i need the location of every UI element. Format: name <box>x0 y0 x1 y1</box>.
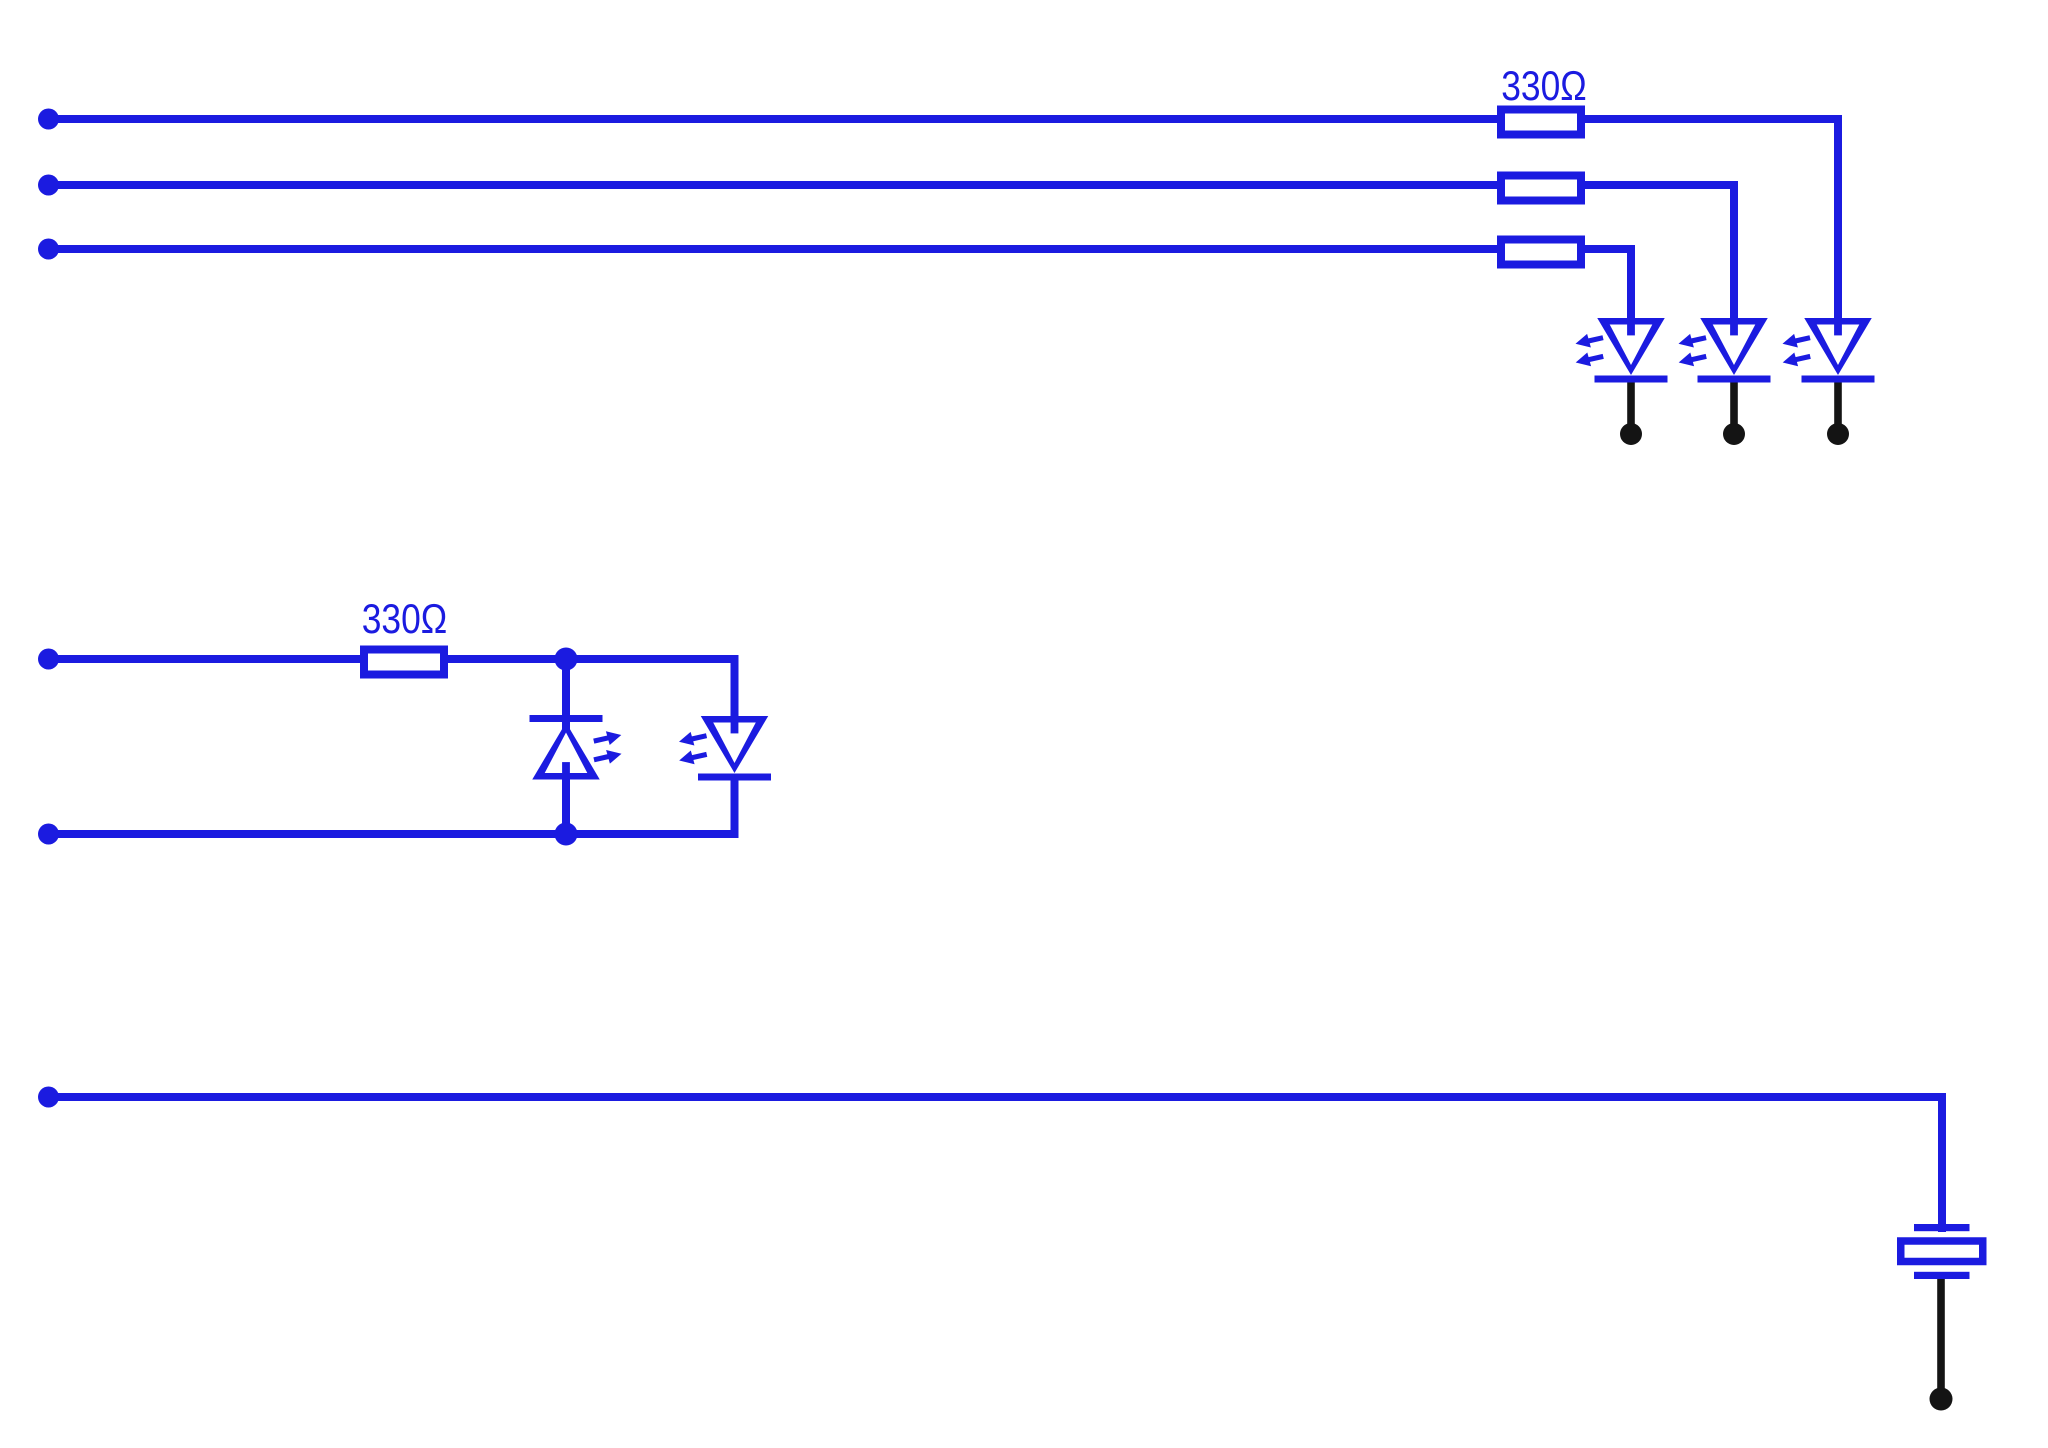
node terminal row2 <box>38 175 59 196</box>
pin cathode D3 <box>1827 381 1849 445</box>
wire emitter branch <box>562 659 570 834</box>
piezo buzzer BZ1 <box>1901 1224 1983 1279</box>
wire buzzer net <box>48 1097 1942 1232</box>
photodiode D5 receiver <box>677 716 771 781</box>
resistor R4 330ohm <box>364 650 444 675</box>
pin cathode D2 <box>1723 381 1745 445</box>
LED D3 <box>1781 318 1875 383</box>
pin buzzer negative <box>1930 1277 1953 1411</box>
svg-text:330Ω: 330Ω <box>362 595 448 642</box>
node terminal row3 <box>38 239 59 260</box>
LED D4 infrared emitter <box>530 715 624 780</box>
node terminal middle bottom <box>38 824 59 845</box>
resistor R2 330ohm <box>1501 176 1581 201</box>
svg-text:330Ω: 330Ω <box>1501 62 1587 109</box>
wire middle bottom rail <box>48 778 735 834</box>
junction node top <box>555 648 578 671</box>
node terminal buzzer <box>38 1087 59 1108</box>
resistor R3 330ohm <box>1501 240 1581 265</box>
node terminal middle top <box>38 649 59 670</box>
wire net row2 <box>48 185 1734 322</box>
node terminal row1 <box>38 109 59 130</box>
junction node bottom <box>555 823 578 846</box>
LED D1 <box>1574 318 1668 383</box>
resistor R1 330ohm <box>1501 110 1581 135</box>
wire net row3 <box>48 249 1631 322</box>
LED D2 <box>1677 318 1771 383</box>
wire middle top rail <box>48 659 735 722</box>
wire net row1 <box>48 119 1838 322</box>
pin cathode D1 <box>1620 381 1642 445</box>
